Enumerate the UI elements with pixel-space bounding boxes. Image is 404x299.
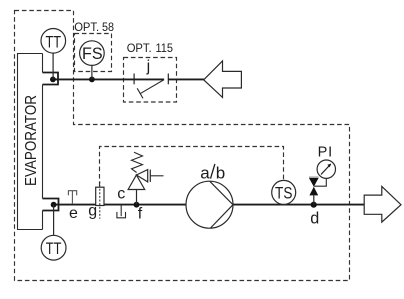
svg-text:OPT.: OPT.	[74, 20, 99, 34]
svg-text:TT: TT	[46, 33, 62, 51]
svg-text:TT: TT	[46, 240, 62, 258]
svg-text:OPT.: OPT.	[127, 41, 152, 55]
svg-text:115: 115	[156, 41, 174, 55]
svg-text:58: 58	[102, 20, 114, 34]
svg-text:b: b	[216, 164, 225, 183]
svg-text:j: j	[146, 58, 151, 75]
svg-text:EVAPORATOR: EVAPORATOR	[23, 95, 40, 186]
svg-text:c: c	[117, 186, 125, 203]
svg-text:TS: TS	[275, 185, 293, 203]
svg-text:e: e	[69, 205, 78, 222]
svg-text:a: a	[200, 164, 210, 183]
svg-text:FS: FS	[82, 45, 103, 63]
svg-text:g: g	[88, 203, 97, 220]
svg-text:PI: PI	[318, 144, 333, 160]
svg-text:d: d	[310, 210, 319, 228]
svg-text:f: f	[138, 205, 143, 222]
